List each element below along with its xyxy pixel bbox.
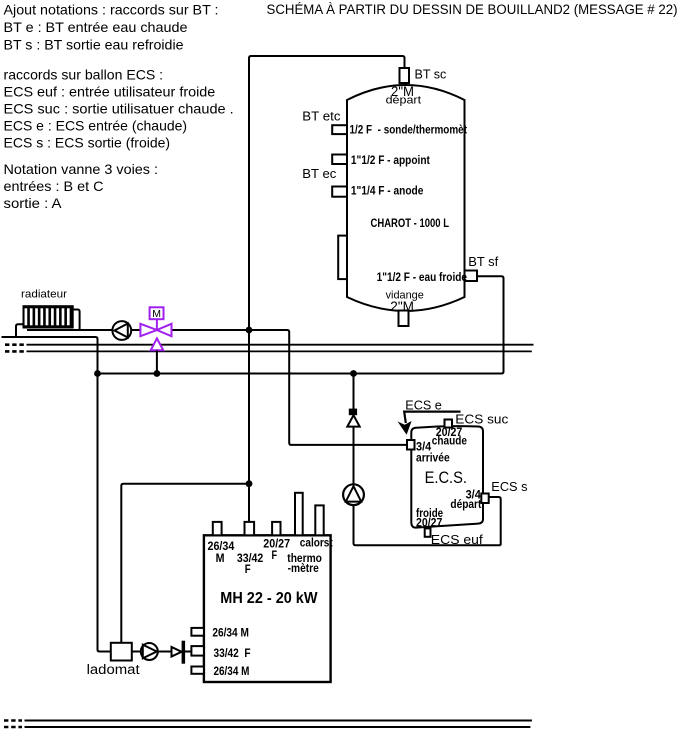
- svg-text:départ: départ: [386, 94, 422, 106]
- tank CHAROT body: [347, 85, 465, 311]
- svg-text:-mètre: -mètre: [288, 563, 319, 575]
- svg-text:F: F: [272, 550, 278, 562]
- svg-text:ECS euf : entrée utilisateur f: ECS euf : entrée utilisateur froide: [4, 83, 216, 99]
- wire line E return to BT sf: [98, 276, 504, 373]
- svg-text:Notation vanne 3 voies :: Notation vanne 3 voies :: [4, 161, 159, 177]
- svg-text:chaude: chaude: [432, 433, 467, 447]
- wire ladomat feed (x=121.3 from y=483.7): [121, 484, 249, 643]
- boiler left stub 3: [191, 667, 204, 674]
- svg-text:BT s : BT sortie eau refroidie: BT s : BT sortie eau refroidie: [4, 36, 184, 52]
- ladomat box: [111, 643, 132, 661]
- svg-text:CHAROT - 1000 L: CHAROT - 1000 L: [371, 216, 450, 230]
- pump P2 (ECS loop): [343, 484, 364, 505]
- junction dots: [94, 370, 101, 377]
- radiator right pipe: [74, 310, 80, 331]
- svg-text:M: M: [152, 308, 161, 320]
- svg-text:26/34: 26/34: [208, 541, 235, 553]
- boiler left stub 1: [191, 628, 204, 636]
- boiler left stub 2: [191, 646, 204, 656]
- wire ladomat to boiler: [132, 651, 192, 653]
- pump P3 (ladomat): [141, 643, 158, 660]
- tank stub anode: [332, 187, 347, 197]
- note block raccords ECS: [4, 67, 234, 151]
- svg-text:20/27: 20/27: [416, 516, 443, 530]
- svg-text:BT sc: BT sc: [415, 67, 447, 82]
- wire radiator return line B: [2, 337, 111, 652]
- tank flange: [338, 236, 347, 280]
- svg-text:26/34 M: 26/34 M: [214, 666, 250, 678]
- tank stub eau froide BT sf: [465, 271, 478, 282]
- svg-text:20/27: 20/27: [263, 539, 290, 551]
- svg-text:1"1/2 F - eau froide: 1"1/2 F - eau froide: [377, 270, 468, 284]
- svg-text:arrivée: arrivée: [416, 450, 450, 464]
- svg-text:ECS e : ECS entrée (chaude): ECS e : ECS entrée (chaude): [4, 118, 188, 134]
- pipe D (cut pipe lower): [27, 350, 532, 352]
- svg-text:ECS s : ECS sortie (froide): ECS s : ECS sortie (froide): [4, 135, 171, 151]
- svg-text:BT etc: BT etc: [302, 108, 341, 123]
- pipe C (cut pipe upper): [27, 344, 534, 346]
- svg-text:MH 22 - 20 kW: MH 22 - 20 kW: [220, 590, 318, 607]
- svg-text:M: M: [216, 553, 225, 565]
- wire valve bottom port: [156, 350, 158, 373]
- tank stub vidange: [399, 311, 409, 327]
- svg-text:33/42 F: 33/42 F: [214, 648, 251, 660]
- ECS stub suc (top): [445, 420, 453, 428]
- wire ECS s outlet: [489, 497, 500, 545]
- note block vanne 3 voies: [4, 161, 159, 211]
- svg-text:ECS s: ECS s: [491, 479, 528, 494]
- ECS tank body: [411, 426, 483, 527]
- bottom cut pipe 2: [25, 726, 531, 728]
- tank stub sonde: [332, 125, 347, 134]
- 3-way valve V3V (purple): [140, 307, 171, 350]
- wire line A radiator flow to ECS coil: [27, 330, 407, 445]
- svg-text:1"1/4 F - anode: 1"1/4 F - anode: [351, 184, 424, 198]
- svg-text:SCHÉMA À PARTIR DU DESSIN DE B: SCHÉMA À PARTIR DU DESSIN DE BOUILLAND2 …: [267, 2, 678, 17]
- svg-text:sortie : A: sortie : A: [4, 195, 63, 211]
- boiler tall stub thermometre: [315, 505, 323, 535]
- svg-text:F: F: [245, 564, 251, 576]
- pump P1 (radiator line): [112, 321, 131, 340]
- svg-text:26/34 M: 26/34 M: [212, 627, 249, 639]
- svg-text:ECS e: ECS e: [405, 398, 442, 413]
- ECS stub e (left): [407, 440, 415, 450]
- svg-text:ECS suc : sortie utilisatuer c: ECS suc : sortie utilisatuer chaude .: [4, 101, 234, 117]
- boiler tall stub calorstat: [295, 493, 303, 536]
- svg-text:entrées : B et C: entrées : B et C: [4, 178, 104, 194]
- radiator: [23, 305, 74, 328]
- wire BT sc to boiler (vertical trunk x=249): [249, 56, 405, 522]
- check valve CV2 (ladomat): [172, 641, 186, 664]
- svg-text:BT ec: BT ec: [302, 166, 337, 181]
- svg-text:départ: départ: [450, 497, 481, 511]
- svg-text:BT e : BT entrée eau chaude: BT e : BT entrée eau chaude: [4, 19, 188, 35]
- svg-text:1"1/2 F - appoint: 1"1/2 F - appoint: [351, 153, 430, 167]
- ECS stub euf (bottom): [425, 528, 431, 536]
- svg-text:Ajout notations : raccords sur: Ajout notations : raccords sur BT :: [4, 2, 219, 18]
- svg-text:ladomat: ladomat: [87, 662, 140, 677]
- boiler MH body: [204, 535, 331, 682]
- svg-text:E.C.S.: E.C.S.: [425, 469, 467, 487]
- check valve CV1 (to ECS coil): [347, 409, 359, 427]
- boiler top stub 2: [245, 522, 255, 535]
- radiator left pipe: [16, 324, 23, 337]
- svg-text:BT sf: BT sf: [468, 254, 498, 269]
- svg-text:raccords sur ballon ECS :: raccords sur ballon ECS :: [4, 67, 164, 83]
- wire ECS pump branch (x=353.5): [354, 374, 501, 546]
- bottom cut pipe 1: [25, 720, 532, 722]
- ECS stub s (right): [481, 494, 488, 504]
- boiler top stub 1: [213, 522, 222, 535]
- svg-text:calorst: calorst: [300, 538, 333, 550]
- svg-text:ECS euf: ECS euf: [431, 532, 483, 547]
- svg-text:radiateur: radiateur: [21, 289, 67, 301]
- svg-text:2"M: 2"M: [390, 298, 414, 314]
- svg-text:ECS suc: ECS suc: [455, 412, 509, 427]
- svg-text:1/2 F - sonde/thermomèt: 1/2 F - sonde/thermomèt: [350, 123, 468, 137]
- note block raccords BT: [4, 2, 219, 53]
- boiler top stub 3: [272, 522, 280, 535]
- tank stub BT sc: [400, 68, 410, 83]
- tank stub appoint: [332, 155, 347, 165]
